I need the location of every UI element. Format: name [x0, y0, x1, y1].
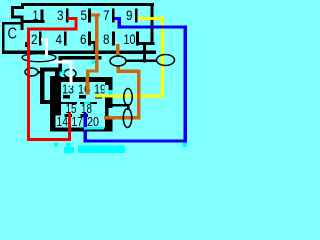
wire white pin2 to ECU pin13 [41, 39, 73, 87]
orange pin20 wire over edge [104, 116, 113, 120]
pin 16 stub [79, 95, 86, 99]
svg-text:1: 1 [33, 7, 39, 23]
wire pin10 stub to outline [137, 42, 155, 45]
inline connector oval on red wire [25, 68, 38, 76]
pin 19 notch [105, 85, 109, 95]
pin 7 bar [112, 9, 115, 23]
pin20 notch [109, 108, 113, 116]
bright cyan stub below red wire [66, 143, 70, 148]
relay box outline top-left notch [21, 3, 24, 9]
pin 5 bar [88, 9, 91, 23]
orange pin16 tick [86, 77, 90, 94]
relay box outline top edge [23, 3, 154, 6]
pin 2 bar [39, 32, 42, 46]
wire red pin3 to ECU pin14 [27, 17, 78, 141]
pin 15 stub [65, 114, 73, 117]
relay box outline right edge [151, 3, 154, 45]
bright cyan mark on ECU bottom [84, 127, 104, 130]
white pin13 tick over edge [70, 77, 73, 86]
svg-text:5: 5 [81, 7, 88, 23]
wire orange pin5 to ECU pin16 [86, 14, 100, 95]
wire yellow pin9 to ECU pin19 [95, 17, 164, 98]
pin 13 stub [63, 95, 70, 99]
pin 6 bar [88, 32, 91, 46]
wire pin6 down to bus [89, 41, 97, 44]
bright cyan mark on pin 18 cell line [84, 102, 90, 105]
bright cyan bottom bar [78, 146, 125, 154]
white wire over oval [70, 68, 73, 86]
svg-text:9: 9 [126, 7, 133, 23]
ECU box outline [40, 68, 113, 132]
blue pin17 tick redraw [84, 113, 88, 132]
svg-text:20: 20 [87, 114, 99, 129]
wire orange oval A to ECU pin20 [104, 66, 141, 120]
bright cyan nub at W1/orange junction [92, 61, 96, 65]
svg-text:17: 17 [72, 114, 84, 129]
wire pin10 down to junction [143, 44, 146, 61]
wire black ECU corner to orange junction [59, 56, 102, 60]
pin 1 bar [41, 10, 44, 24]
red pin14 tick redraw [68, 113, 71, 132]
svg-text:19: 19 [94, 82, 106, 97]
load oval B [157, 55, 175, 66]
svg-text:6: 6 [80, 31, 87, 47]
svg-text:C: C [8, 26, 18, 43]
svg-text:3: 3 [57, 7, 64, 23]
svg-text:2: 2 [31, 31, 38, 47]
white wire over long oval [45, 53, 48, 58]
inline connector long oval on bus [22, 54, 56, 62]
wire ECU pin18 to coil ovals [105, 104, 129, 107]
bright cyan stub to white oval [57, 71, 65, 75]
coil connector [127, 104, 130, 110]
coil oval V1 [124, 89, 133, 106]
svg-text:14: 14 [57, 114, 69, 129]
junction dot [142, 58, 146, 62]
bright cyan mark under blue corner [183, 143, 188, 148]
svg-text:10: 10 [124, 31, 136, 47]
wire orange pin8 stub to oval A [116, 44, 120, 57]
wire blue pin7 to ECU pin17 [84, 17, 188, 143]
svg-text:4: 4 [56, 31, 63, 47]
pin 8 bar [112, 32, 115, 46]
wire red oval to ECU edge [38, 71, 42, 74]
yellow wire over right edge [95, 95, 113, 98]
pin 10 bar [136, 32, 139, 46]
pin 18 cell line [80, 102, 97, 104]
bright cyan mark in pin 19 notch [109, 90, 113, 95]
bright cyan mark bottom left [54, 143, 58, 147]
pin 19 stub [95, 95, 102, 99]
svg-text:8: 8 [103, 31, 110, 47]
pin 15 cell line [60, 102, 77, 104]
relay bottom bus wire [2, 51, 156, 55]
wire oval A to junction dot [126, 59, 156, 62]
pin 4 bar [64, 32, 67, 46]
red wire over oval [27, 53, 30, 77]
connector C box [2, 22, 5, 54]
pin 9 bar [135, 9, 138, 23]
inline connector oval on white wire [64, 69, 76, 78]
svg-text:7: 7 [103, 7, 110, 23]
pin 18 stub [81, 114, 89, 117]
coil oval V2 [123, 109, 132, 128]
pin 3 bar [66, 9, 69, 23]
wire pin1 to outline [21, 20, 45, 23]
load oval A [110, 56, 126, 66]
